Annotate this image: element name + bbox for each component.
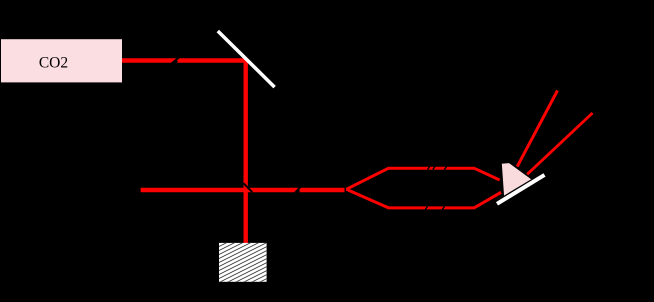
beamsplitter at beam crossing: [244, 183, 253, 192]
CO2 laser box: [1, 39, 122, 82]
focusing beam envelope bottom path: [346, 189, 501, 208]
focusing beam envelope (lens focus hexagon) top path: [346, 168, 499, 189]
beam dump (hatched box): [219, 243, 267, 282]
arrowheads on envelope top edge: [427, 166, 446, 170]
mirror M1 (45 deg turning mirror): [218, 31, 275, 87]
scattered beam A: [517, 91, 557, 167]
mirror M2 (tilted mirror under wedge): [497, 175, 545, 204]
arrowhead on main beam: [172, 57, 180, 66]
arrowhead on horizontal beam: [295, 187, 301, 195]
wire: horizontal probe beam: [141, 188, 345, 192]
arrowheads on envelope bottom edge: [425, 206, 444, 210]
target wedge (prism): [501, 163, 532, 197]
wire: main beam from laser to mirror, then down to beam dump: [122, 61, 246, 244]
svg-text:CO2: CO2: [39, 54, 68, 71]
scattered beam B: [527, 113, 592, 174]
